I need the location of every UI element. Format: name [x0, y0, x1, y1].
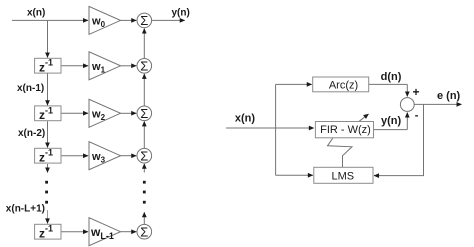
- svg-text:+: +: [413, 85, 420, 99]
- svg-text:Σ: Σ: [140, 148, 148, 163]
- svg-text:x(n): x(n): [27, 7, 45, 18]
- svg-text:LMS: LMS: [331, 170, 354, 182]
- svg-text:x(n-L+1): x(n-L+1): [6, 204, 45, 215]
- svg-text:-: -: [415, 110, 419, 122]
- svg-text:y(n): y(n): [381, 115, 402, 127]
- svg-text:FIR - W(z): FIR - W(z): [320, 124, 371, 136]
- svg-text:Σ: Σ: [140, 224, 148, 239]
- svg-text:x(n-2): x(n-2): [18, 128, 45, 139]
- svg-text:Σ: Σ: [140, 13, 148, 28]
- svg-text:Σ: Σ: [140, 59, 148, 74]
- svg-text:Σ: Σ: [140, 106, 148, 121]
- svg-text:Arc(z): Arc(z): [329, 79, 358, 91]
- svg-text:e (n): e (n): [437, 90, 461, 102]
- svg-text:x(n): x(n): [235, 113, 256, 125]
- svg-text:y(n): y(n): [172, 7, 190, 18]
- svg-text:d(n): d(n): [381, 71, 402, 83]
- svg-text:x(n-1): x(n-1): [17, 83, 44, 94]
